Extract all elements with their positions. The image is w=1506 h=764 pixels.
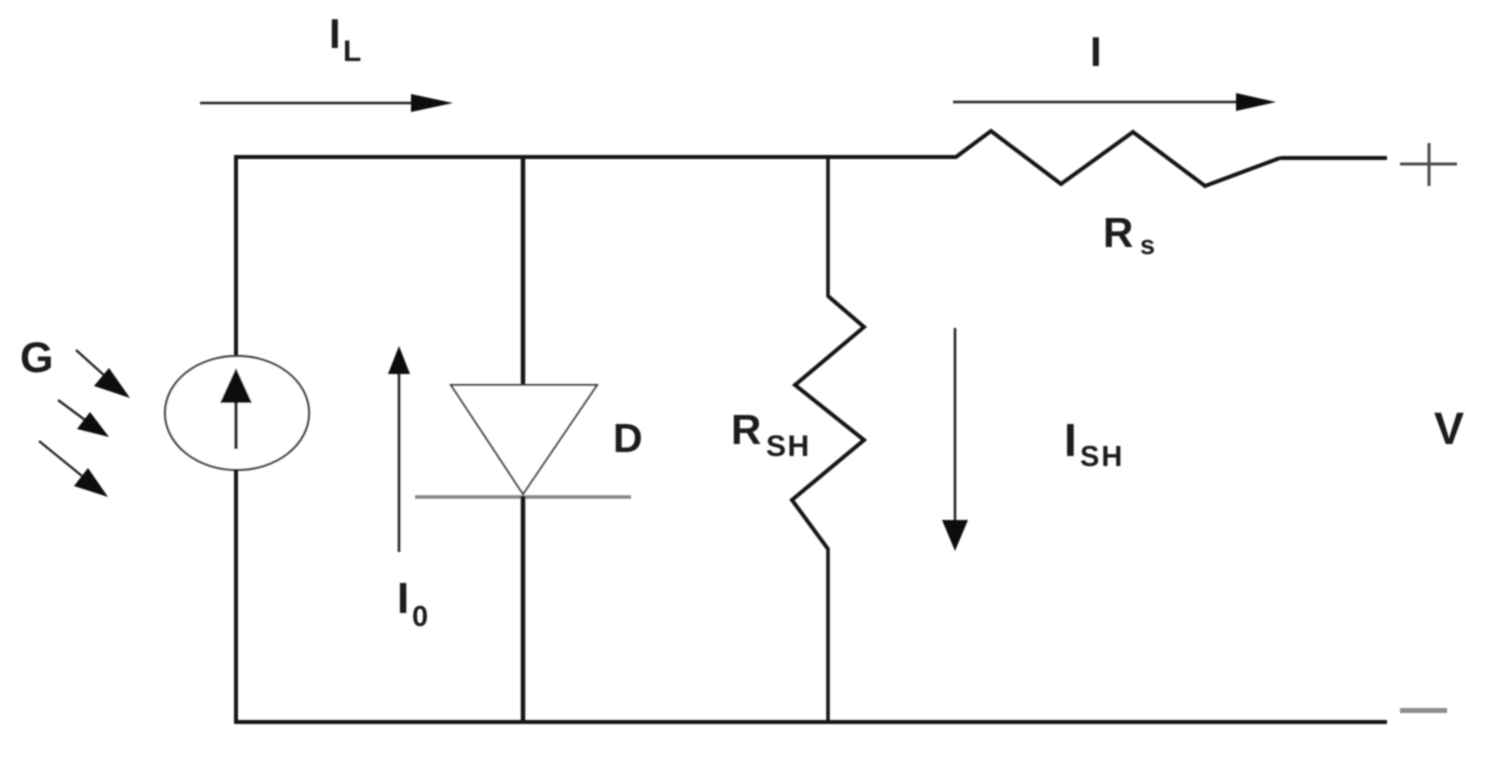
arrow I0 diode current <box>388 346 410 552</box>
positive terminal + <box>1400 143 1457 186</box>
svg-text:I: I <box>329 10 341 57</box>
svg-text:D: D <box>613 415 643 461</box>
current source circle <box>165 356 309 470</box>
arrow IL current direction <box>200 94 453 112</box>
current source arrow <box>220 368 252 449</box>
diode D triangle <box>451 385 597 494</box>
wire from Rs to positive terminal <box>1280 156 1387 160</box>
svg-text:I: I <box>397 574 409 623</box>
svg-text:G: G <box>20 334 53 382</box>
wire left branch upper <box>234 155 238 358</box>
label I0 <box>397 574 428 633</box>
wire diode branch upper <box>521 155 526 385</box>
svg-text:I: I <box>1064 414 1077 466</box>
irradiance arrow 3 <box>39 441 108 497</box>
svg-text:SH: SH <box>766 430 811 463</box>
svg-text:0: 0 <box>412 601 428 633</box>
svg-text:V: V <box>1434 403 1464 454</box>
label ISH <box>1064 414 1124 473</box>
svg-text:R: R <box>1103 209 1133 256</box>
irradiance arrow 1 <box>76 350 130 398</box>
label Rs <box>1103 209 1155 260</box>
label RSH <box>731 406 811 463</box>
svg-text:I: I <box>1090 28 1102 75</box>
arrow ISH shunt current <box>942 328 968 551</box>
resistor RSH zigzag <box>792 296 864 549</box>
diode D cathode bar <box>415 495 631 498</box>
svg-text:R: R <box>731 406 761 453</box>
negative terminal - <box>1400 708 1447 713</box>
wire diode branch lower <box>521 496 526 724</box>
irradiance arrow 2 <box>58 400 109 437</box>
wire bottom bus <box>234 720 1387 724</box>
wire top bus from node A to resistor Rs <box>234 155 957 159</box>
svg-text:L: L <box>343 35 361 68</box>
wire shunt branch upper <box>826 155 830 297</box>
wire left branch lower <box>234 469 238 724</box>
arrow I current direction <box>953 93 1276 111</box>
resistor RS zigzag <box>956 131 1280 186</box>
wire shunt branch lower <box>826 548 830 724</box>
svg-text:s: s <box>1140 230 1155 260</box>
svg-text:SH: SH <box>1080 441 1124 473</box>
label IL <box>329 10 361 68</box>
